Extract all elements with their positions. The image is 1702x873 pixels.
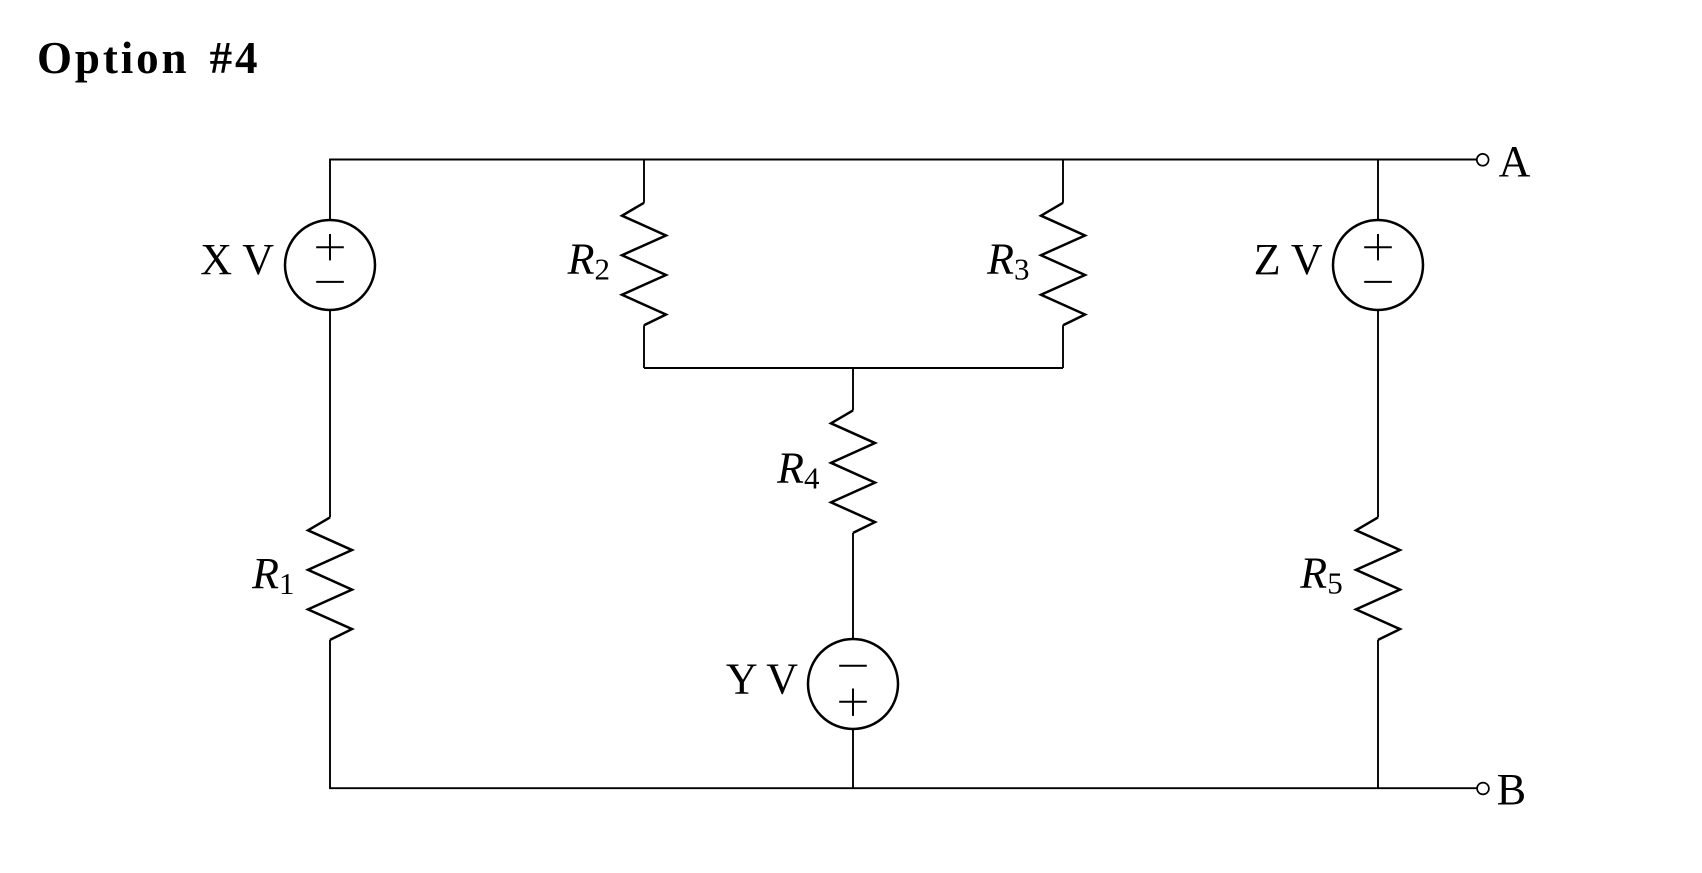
svg-text:Y V: Y V	[726, 655, 798, 704]
voltage source V1 (X V) circle	[285, 220, 375, 310]
V3 minus sign	[1364, 281, 1392, 283]
wire from R4 bottom to V2 top	[852, 533, 854, 639]
wire from top rail down to R2	[643, 159, 645, 203]
svg-text:Option #4: Option #4	[37, 33, 260, 83]
wire from V2 bottom to bottom rail	[852, 729, 854, 788]
svg-text:B: B	[1497, 765, 1526, 814]
wire top rail from top-left corner to node A	[330, 160, 1477, 221]
svg-text:R1: R1	[251, 549, 294, 601]
V2 minus sign	[839, 665, 867, 667]
resistor R4	[831, 410, 875, 533]
node A terminal	[1477, 154, 1489, 166]
resistor R1	[308, 517, 352, 640]
V1 minus sign	[316, 281, 344, 283]
resistor R3	[1041, 203, 1085, 325]
wire from V3 bottom to R5 top	[1377, 310, 1379, 517]
voltage source V3 (Z V) circle	[1333, 220, 1423, 310]
wire from R3 bottom to middle rail	[1062, 325, 1064, 368]
wire bottom rail from R1 bottom to node B	[330, 640, 1477, 788]
wire from R2 bottom to middle rail	[643, 325, 645, 368]
wire middle rail joining R2 and R3 bottoms	[644, 367, 1063, 369]
svg-text:A: A	[1499, 137, 1531, 186]
resistor R5	[1356, 517, 1400, 640]
svg-text:R4: R4	[776, 444, 820, 496]
resistor R2	[622, 203, 666, 325]
V2 plus sign	[839, 689, 867, 716]
wire from top rail down to R3	[1062, 159, 1064, 203]
wire from R5 bottom to bottom rail	[1377, 640, 1379, 788]
node B terminal	[1477, 783, 1489, 795]
svg-text:R3: R3	[986, 235, 1029, 287]
V3 plus sign	[1364, 234, 1392, 260]
wire from middle rail down to R4	[852, 368, 854, 410]
V1 plus sign	[316, 234, 344, 260]
wire from V1 bottom to R1 top	[329, 310, 331, 517]
wire from top rail down to V3	[1377, 159, 1379, 220]
voltage source V2 (Y V) circle	[808, 639, 898, 729]
svg-text:R2: R2	[567, 235, 610, 287]
svg-text:Z V: Z V	[1254, 235, 1323, 284]
svg-text:X V: X V	[200, 235, 274, 284]
svg-text:R5: R5	[1299, 549, 1342, 601]
